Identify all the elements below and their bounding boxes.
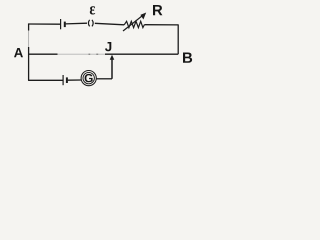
cell E1 short plate xyxy=(64,22,66,28)
wire speck 2 xyxy=(96,53,98,55)
wire jockey vertical xyxy=(111,59,113,79)
wire left vertical faded middle xyxy=(28,31,30,48)
key K right contact xyxy=(92,20,93,27)
label A (terminal) xyxy=(14,48,23,57)
label J (jockey) xyxy=(105,42,111,51)
wire right vertical xyxy=(177,24,179,54)
wire key to rheostat xyxy=(95,23,124,25)
key K left contact xyxy=(88,20,89,27)
wire left vertical lower solid xyxy=(28,47,30,80)
wire left vertical upper solid xyxy=(28,24,30,31)
jockey J arrow head xyxy=(110,55,115,60)
label G (galvanometer) xyxy=(85,74,93,82)
label B (terminal) xyxy=(183,53,192,63)
cell E1 long plate xyxy=(60,19,62,29)
cell E2 long plate xyxy=(62,75,64,85)
label epsilon emf xyxy=(90,6,95,14)
wire speck 1 xyxy=(89,53,91,55)
rheostat R zigzag xyxy=(124,21,144,27)
wire A to B potentiometer faded part xyxy=(58,53,106,55)
galvanometer G outer ring xyxy=(81,71,96,86)
rheostat arrow shaft xyxy=(123,15,143,31)
wire A to B potentiometer left part xyxy=(28,53,57,55)
wire rheostat to right corner xyxy=(144,24,178,26)
cell E2 short plate xyxy=(66,77,68,83)
wire galvanometer to corner xyxy=(96,78,112,80)
wire cell to galvanometer xyxy=(68,79,82,81)
galvanometer G inner ring xyxy=(83,72,94,83)
wire top-left segment xyxy=(28,23,60,25)
rheostat arrow head xyxy=(140,13,146,20)
label R (rheostat) xyxy=(153,5,162,15)
wire bottom-left segment xyxy=(28,79,62,81)
wire A to B potentiometer right part xyxy=(105,53,178,55)
wire cell to key xyxy=(66,22,87,25)
